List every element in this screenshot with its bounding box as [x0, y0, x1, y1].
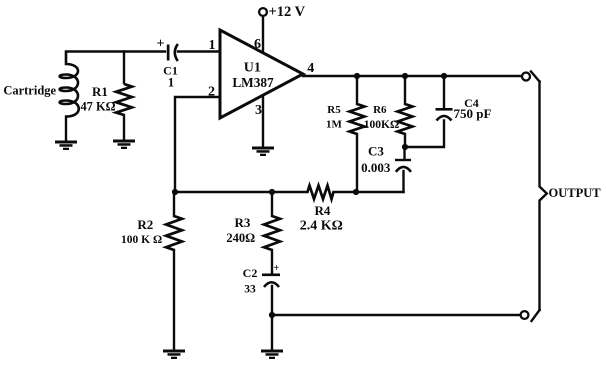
- svg-text:240Ω: 240Ω: [226, 231, 255, 245]
- wire pin 3 to ground: [262, 96, 264, 147]
- node R5 bottom junction: [353, 189, 359, 195]
- terminal +12V: [259, 8, 267, 16]
- wire R2 top lead: [173, 192, 175, 216]
- wire R5 bottom lead: [356, 134, 358, 192]
- wire R1 bottom lead: [123, 115, 125, 140]
- wire C2 bottom lead: [271, 286, 273, 350]
- svg-text:33: 33: [244, 284, 256, 296]
- node R5 top: [354, 73, 360, 79]
- node C2 output junction: [269, 312, 275, 318]
- wire R3 top lead: [271, 192, 273, 216]
- svg-text:+12 V: +12 V: [269, 4, 306, 20]
- resistor R1: [116, 84, 132, 115]
- svg-text:100 K Ω: 100 K Ω: [121, 234, 162, 246]
- capacitor C3: [395, 159, 411, 172]
- wire feedback left: [175, 191, 308, 193]
- svg-text:R6: R6: [373, 104, 387, 116]
- node R3 junction: [269, 189, 275, 195]
- wire C3 bottom lead: [402, 171, 404, 192]
- wire R6 bottom lead: [404, 134, 406, 147]
- ground R2: [163, 350, 185, 360]
- svg-text:0.003: 0.003: [361, 160, 391, 175]
- ground C2: [261, 350, 283, 360]
- resistor R6: [398, 104, 413, 134]
- wire R5 top lead: [356, 76, 358, 104]
- svg-text:R2: R2: [137, 217, 153, 232]
- svg-text:1M: 1M: [326, 119, 343, 131]
- node C4 top: [441, 73, 447, 79]
- svg-text:C3: C3: [368, 144, 384, 159]
- wire pin 6 supply: [262, 16, 264, 52]
- svg-text:750 pF: 750 pF: [454, 106, 492, 121]
- ground R1: [113, 140, 135, 150]
- svg-text:2.4 KΩ: 2.4 KΩ: [300, 219, 343, 234]
- resistor R4: [308, 186, 334, 200]
- wire bottom output rail: [272, 314, 521, 316]
- svg-text:R3: R3: [235, 215, 251, 230]
- resistor R2: [166, 216, 182, 250]
- capacitor C4: [436, 108, 453, 121]
- svg-text:R1: R1: [92, 84, 108, 99]
- node R6 C3 C4 junction: [402, 144, 408, 150]
- wire output link vertical with brace: [540, 82, 547, 311]
- wire feedback right: [334, 191, 404, 193]
- wire C1 to pin 1: [178, 50, 220, 52]
- svg-text:U1: U1: [244, 61, 261, 76]
- svg-text:LM387: LM387: [232, 75, 274, 90]
- svg-text:6: 6: [254, 37, 261, 52]
- op-amp U1: [220, 30, 303, 118]
- svg-text:3: 3: [255, 103, 262, 118]
- wire pin 2 input: [175, 97, 220, 192]
- wire coil to ground: [65, 117, 67, 142]
- svg-text:R5: R5: [327, 104, 341, 116]
- svg-text:1: 1: [168, 75, 175, 90]
- node R6 top: [402, 73, 408, 79]
- wire R2 bottom lead: [173, 250, 175, 350]
- svg-text:+: +: [157, 37, 165, 52]
- svg-text:OUTPUT: OUTPUT: [549, 186, 602, 200]
- capacitor C1: [167, 44, 178, 61]
- ground U1 pin 3: [252, 147, 274, 157]
- terminal output top: [522, 73, 530, 81]
- inductor cartridge coil: [60, 52, 79, 117]
- wire C3 top lead: [403, 147, 405, 159]
- wire R6 top lead: [404, 76, 406, 104]
- ground cartridge: [55, 141, 77, 151]
- svg-text:4: 4: [307, 61, 314, 76]
- wire R1 top lead: [123, 52, 125, 84]
- resistor R5: [350, 104, 365, 134]
- svg-text:R4: R4: [314, 203, 330, 218]
- resistor R3: [264, 216, 280, 250]
- wire C4 bottom lead: [405, 121, 444, 148]
- wire output link bottom diagonal: [532, 310, 540, 321]
- wire output link top diagonal: [531, 72, 540, 82]
- svg-text:C2: C2: [243, 266, 258, 280]
- wire input top rail: [66, 50, 165, 52]
- svg-text:1: 1: [209, 38, 216, 53]
- capacitor C2: [262, 274, 280, 288]
- svg-text:+: +: [273, 263, 279, 274]
- svg-text:100KΩ: 100KΩ: [364, 119, 399, 131]
- svg-text:Cartridge: Cartridge: [3, 84, 56, 98]
- wire C4 top lead: [443, 76, 445, 108]
- wire R3 bottom lead: [271, 250, 273, 273]
- node pin2 R2 junction: [172, 189, 178, 195]
- svg-text:47 KΩ: 47 KΩ: [80, 100, 115, 114]
- wire output pin 4 rail: [303, 75, 522, 77]
- terminal output bottom: [521, 311, 529, 319]
